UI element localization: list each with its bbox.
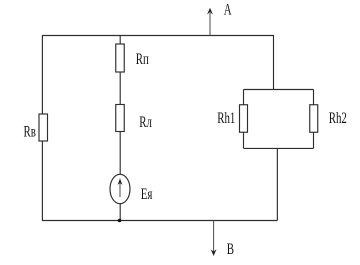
svg-text:Rп: Rп	[136, 50, 149, 68]
svg-text:Rл: Rл	[139, 113, 152, 131]
svg-text:Rh1: Rh1	[217, 109, 235, 127]
svg-text:B: B	[227, 240, 234, 258]
svg-text:Ея: Ея	[141, 185, 153, 203]
svg-text:A: A	[224, 0, 232, 18]
svg-text:Rв: Rв	[24, 122, 36, 140]
svg-text:Rh2: Rh2	[329, 109, 347, 127]
